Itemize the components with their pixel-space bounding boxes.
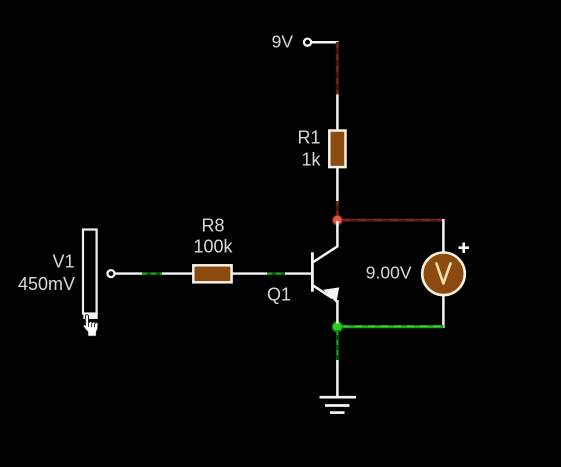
svg-text:100k: 100k — [193, 237, 233, 257]
svg-text:450mV: 450mV — [18, 274, 75, 294]
svg-text:1k: 1k — [301, 150, 321, 170]
svg-text:Q1: Q1 — [267, 285, 291, 305]
svg-text:9V: 9V — [272, 32, 294, 52]
svg-text:V1: V1 — [52, 252, 74, 272]
svg-text:9.00V: 9.00V — [366, 263, 412, 283]
svg-text:R8: R8 — [201, 216, 224, 236]
svg-text:R1: R1 — [297, 128, 320, 148]
